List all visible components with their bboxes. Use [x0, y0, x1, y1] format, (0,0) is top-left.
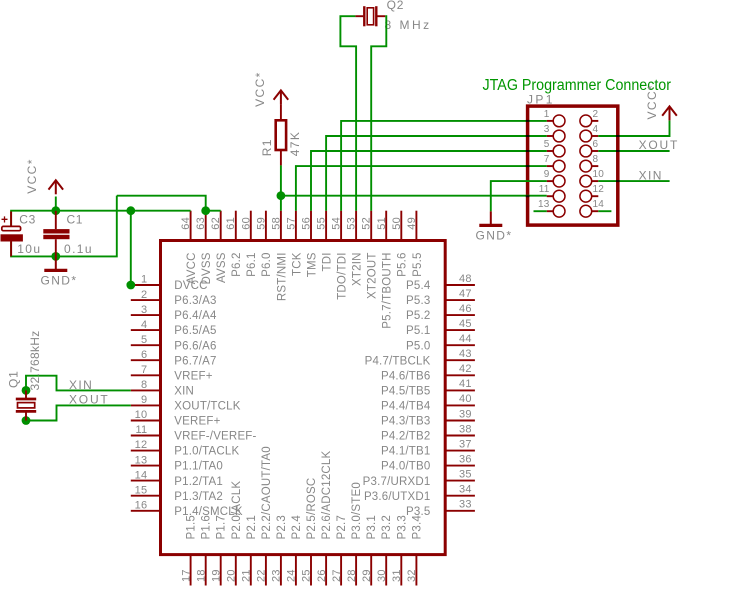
- svg-text:P6.0: P6.0: [261, 252, 273, 276]
- U1 pin 58 (RST/NMI) top: [270, 211, 288, 301]
- svg-text:52: 52: [361, 217, 373, 230]
- svg-text:P4.4/TB4: P4.4/TB4: [381, 401, 431, 413]
- JP1 pin 7: [544, 154, 565, 172]
- svg-text:5: 5: [544, 139, 550, 150]
- U1 pin 53 (XT2IN) top: [346, 211, 364, 286]
- svg-text:XOUT: XOUT: [69, 393, 110, 407]
- svg-text:Q2: Q2: [387, 0, 405, 12]
- svg-text:0.1u: 0.1u: [64, 242, 93, 256]
- svg-text:XT2IN: XT2IN: [352, 252, 364, 286]
- junction C1/GND: [51, 252, 60, 261]
- svg-text:XOUT: XOUT: [639, 138, 680, 152]
- svg-text:XIN: XIN: [174, 386, 194, 398]
- svg-text:TDO/TDI: TDO/TDI: [337, 252, 349, 299]
- svg-text:6: 6: [141, 349, 147, 361]
- junction Q1 top: [22, 386, 31, 395]
- U1 pin 1 (DVCC) left: [131, 274, 208, 292]
- svg-text:TCK: TCK: [291, 252, 303, 276]
- svg-text:4: 4: [141, 319, 147, 331]
- svg-text:RST/NMI: RST/NMI: [276, 252, 288, 301]
- svg-text:14: 14: [593, 199, 605, 210]
- U1 pin 7 (VREF+) left: [131, 364, 213, 382]
- U1 pin 57 (TCK) top: [285, 211, 303, 276]
- wire TDO/TDI/TMS/TCK chain 3: [296, 166, 547, 211]
- svg-text:C3: C3: [19, 213, 36, 227]
- svg-text:44: 44: [459, 333, 472, 345]
- U1 pin 35 (P3.7/URXD1) right: [363, 468, 475, 487]
- svg-text:P3.0/STE0: P3.0/STE0: [351, 482, 363, 539]
- JP1 pin 12: [580, 184, 604, 202]
- svg-text:58: 58: [270, 217, 282, 230]
- U1 pin 6 (P6.7/A7) left: [131, 349, 217, 368]
- wire VCC rail (C3-C1-pin64): [11, 211, 191, 227]
- svg-text:P2.0/ACLK: P2.0/ACLK: [231, 481, 243, 540]
- svg-text:7: 7: [544, 154, 550, 165]
- svg-text:29: 29: [361, 569, 373, 582]
- svg-text:15: 15: [135, 484, 148, 496]
- crystal Q2: [355, 6, 385, 26]
- svg-text:63: 63: [195, 217, 207, 230]
- svg-text:VCC*: VCC*: [253, 71, 267, 107]
- JP1 pin 10: [580, 169, 604, 187]
- svg-text:8 MHz: 8 MHz: [385, 18, 432, 32]
- U1 pin 31 (P3.3) bottom: [391, 515, 408, 585]
- svg-text:P2.3: P2.3: [276, 515, 288, 539]
- svg-text:53: 53: [346, 217, 358, 230]
- svg-text:VREF-/VEREF-: VREF-/VEREF-: [174, 431, 256, 443]
- svg-text:XOUT/TCLK: XOUT/TCLK: [174, 401, 240, 413]
- svg-text:P4.3/TB3: P4.3/TB3: [381, 416, 431, 428]
- U1 pin 59 (P6.0) top: [255, 211, 273, 277]
- U1 pin 41 (P4.5/TB5) right: [381, 378, 475, 397]
- svg-text:16: 16: [135, 499, 148, 511]
- svg-text:P1.6: P1.6: [201, 515, 213, 539]
- JP1 pin 11: [539, 184, 565, 202]
- U1 pin 30 (P3.2) bottom: [376, 515, 393, 585]
- svg-text:P3.4: P3.4: [411, 515, 423, 540]
- svg-text:P2.2/CAOUT/TA0: P2.2/CAOUT/TA0: [261, 446, 273, 539]
- U1 pin 43 (P4.7/TBCLK) right: [365, 348, 475, 367]
- svg-text:40: 40: [459, 393, 472, 405]
- junction C1/C3/VCC: [51, 206, 60, 215]
- svg-text:P6.4/A4: P6.4/A4: [174, 310, 217, 322]
- svg-text:P4.6/TB6: P4.6/TB6: [381, 370, 431, 382]
- svg-text:9: 9: [141, 394, 147, 406]
- svg-text:P6.6/A6: P6.6/A6: [174, 340, 216, 352]
- svg-text:P5.4: P5.4: [406, 280, 431, 292]
- junction pin1 branch: [126, 206, 135, 215]
- svg-text:28: 28: [346, 569, 358, 582]
- IC U1 MSP430 body: [161, 241, 446, 555]
- U1 pin 17 (P1.5) bottom: [180, 515, 197, 585]
- U1 pin 11 (VREF-/VEREF-) left: [131, 424, 257, 442]
- svg-text:P5.3: P5.3: [406, 295, 430, 307]
- svg-text:24: 24: [286, 569, 298, 582]
- U1 pin 25 (P2.5/ROSC) bottom: [301, 478, 318, 586]
- svg-text:55: 55: [316, 217, 328, 230]
- U1 pin 50 (P5.6) top: [391, 211, 409, 277]
- U1 pin 22 (P2.2/CAOUT/TA0) bottom: [256, 446, 273, 585]
- wire XOUT net (JP1 pin 6): [598, 150, 669, 152]
- svg-text:2: 2: [593, 109, 599, 120]
- svg-text:P5.0: P5.0: [406, 340, 430, 352]
- JP1 pin 6: [580, 139, 599, 157]
- svg-text:VCC*: VCC*: [25, 158, 39, 194]
- svg-text:P4.7/TBCLK: P4.7/TBCLK: [365, 355, 431, 367]
- svg-text:P5.7/TBOUTH: P5.7/TBOUTH: [382, 252, 394, 328]
- svg-text:VREF+: VREF+: [174, 370, 212, 382]
- svg-text:P6.3/A3: P6.3/A3: [174, 295, 216, 307]
- U1 pin 2 (P6.3/A3) left: [131, 289, 217, 307]
- svg-text:GND*: GND*: [41, 274, 78, 288]
- svg-text:57: 57: [285, 217, 297, 230]
- svg-text:23: 23: [271, 569, 283, 582]
- svg-text:19: 19: [210, 569, 222, 582]
- U1 pin 16 (P1.4/SMCLK) left: [131, 499, 243, 518]
- svg-text:36: 36: [459, 453, 472, 465]
- power symbol VCC* (JTAG): [662, 106, 677, 120]
- svg-text:2: 2: [141, 289, 147, 301]
- svg-text:P2.7: P2.7: [336, 515, 348, 539]
- U1 pin 26 (P2.6/ADC12CLK) bottom: [316, 450, 333, 585]
- svg-text:21: 21: [241, 569, 253, 582]
- U1 pin 27 (P2.7) bottom: [331, 515, 348, 585]
- JP1 pin 1: [544, 109, 565, 127]
- svg-text:56: 56: [301, 217, 313, 230]
- svg-text:P2.1: P2.1: [246, 515, 258, 539]
- svg-text:P5.2: P5.2: [406, 310, 430, 322]
- U1 pin 29 (P3.1) bottom: [361, 515, 378, 585]
- JP1 pin 2: [580, 109, 599, 127]
- svg-text:GND*: GND*: [476, 229, 513, 243]
- svg-text:17: 17: [180, 569, 192, 582]
- wire DVSS/AVSS (to pins 63,62): [117, 196, 206, 211]
- svg-text:P1.5: P1.5: [186, 515, 198, 539]
- svg-text:13: 13: [135, 454, 148, 466]
- resistor R1: [276, 105, 286, 166]
- junction Q1 bottom: [22, 416, 31, 425]
- svg-text:33: 33: [459, 499, 472, 511]
- svg-text:JTAG Programmer Connector: JTAG Programmer Connector: [483, 77, 672, 94]
- svg-text:27: 27: [331, 569, 343, 582]
- wire TDO/TDI/TMS/TCK chain 0: [341, 121, 547, 211]
- svg-text:P6.7/A7: P6.7/A7: [174, 355, 216, 367]
- svg-text:41: 41: [459, 378, 472, 390]
- svg-text:35: 35: [459, 468, 472, 480]
- svg-text:61: 61: [225, 217, 237, 230]
- svg-text:DVCC: DVCC: [174, 280, 207, 292]
- svg-text:P2.5/ROSC: P2.5/ROSC: [306, 478, 318, 540]
- U1 pin 33 (P3.5) right: [406, 499, 475, 518]
- JP1 pin 3: [544, 124, 565, 142]
- svg-text:47K: 47K: [288, 131, 302, 157]
- wire XOUT (Q1 to pin 9): [26, 405, 131, 420]
- U1 pin 61 (P6.2) top: [225, 211, 243, 277]
- JP1 pin 4: [580, 124, 599, 142]
- svg-text:39: 39: [459, 408, 472, 420]
- svg-text:P4.0/TB0: P4.0/TB0: [381, 461, 431, 473]
- svg-text:46: 46: [459, 303, 472, 315]
- svg-text:59: 59: [255, 217, 267, 230]
- svg-text:48: 48: [459, 273, 472, 285]
- svg-text:25: 25: [301, 569, 313, 582]
- svg-text:P4.2/TB2: P4.2/TB2: [381, 431, 431, 443]
- svg-text:10u: 10u: [17, 242, 41, 256]
- U1 pin 18 (P1.6) bottom: [195, 515, 212, 585]
- svg-text:VCC*: VCC*: [645, 84, 659, 120]
- svg-text:P2.4: P2.4: [291, 515, 303, 540]
- svg-text:P6.1: P6.1: [246, 252, 258, 276]
- svg-text:XIN: XIN: [639, 168, 663, 182]
- junction R1/RST: [277, 191, 286, 200]
- svg-text:20: 20: [225, 569, 237, 582]
- svg-text:VEREF+: VEREF+: [174, 416, 220, 428]
- svg-text:64: 64: [180, 217, 192, 230]
- svg-text:P2.6/ADC12CLK: P2.6/ADC12CLK: [321, 450, 333, 539]
- junction pin63/62: [201, 206, 210, 215]
- svg-text:22: 22: [256, 569, 268, 582]
- svg-text:49: 49: [406, 217, 418, 230]
- U1 pin 20 (P2.0/ACLK) bottom: [225, 481, 242, 586]
- wire Q2 right to XT2OUT (pin 52): [371, 16, 386, 211]
- svg-text:P1.7: P1.7: [216, 515, 228, 539]
- svg-text:P3.3: P3.3: [396, 515, 408, 539]
- svg-text:P1.2/TA1: P1.2/TA1: [174, 476, 223, 488]
- svg-text:3: 3: [141, 304, 147, 316]
- U1 pin 37 (P4.1/TB1) right: [381, 438, 475, 457]
- U1 pin 3 (P6.4/A4) left: [131, 304, 217, 322]
- svg-text:5: 5: [141, 334, 147, 346]
- wire RST to JP1 pin 11: [281, 195, 547, 197]
- svg-text:8: 8: [141, 379, 147, 391]
- wire TDO/TDI/TMS/TCK chain 2: [311, 151, 547, 211]
- svg-text:3: 3: [544, 124, 550, 135]
- junction at pin 1: [126, 281, 135, 290]
- svg-text:1: 1: [141, 274, 147, 286]
- svg-text:32: 32: [406, 569, 418, 582]
- svg-text:8: 8: [593, 154, 599, 165]
- svg-text:10: 10: [135, 409, 148, 421]
- svg-text:11: 11: [539, 184, 550, 195]
- U1 pin 23 (P2.3) bottom: [271, 515, 288, 585]
- U1 pin 15 (P1.3/TA2) left: [131, 484, 223, 502]
- U1 pin 19 (P1.7) bottom: [210, 515, 227, 585]
- U1 pin 51 (P5.7/TBOUTH) top: [376, 211, 394, 329]
- U1 pin 36 (P4.0/TB0) right: [381, 453, 475, 472]
- svg-text:P4.5/TB5: P4.5/TB5: [381, 386, 431, 398]
- svg-text:54: 54: [331, 217, 343, 230]
- wire/box crossing darkening: [526, 120, 530, 122]
- svg-text:XIN: XIN: [69, 378, 93, 392]
- svg-text:50: 50: [391, 217, 403, 230]
- U1 pin 9 (XOUT/TCLK) left: [131, 394, 241, 412]
- svg-text:6: 6: [593, 139, 599, 150]
- capacitor C1: [43, 211, 69, 257]
- svg-text:10: 10: [593, 169, 605, 180]
- connector JP1 body: [528, 106, 618, 225]
- wire VCC stem (C1): [55, 197, 57, 211]
- U1 pin 62 (AVSS) top: [210, 211, 228, 283]
- svg-text:62: 62: [210, 217, 222, 230]
- wire JP1 pin 4 to VCC: [598, 121, 669, 137]
- U1 pin 5 (P6.6/A6) left: [131, 334, 217, 352]
- U1 pin 40 (P4.4/TB4) right: [381, 393, 475, 412]
- U1 pin 12 (P1.0/TACLK) left: [131, 439, 240, 458]
- svg-text:11: 11: [135, 424, 147, 436]
- svg-text:XT2OUT: XT2OUT: [367, 252, 379, 299]
- U1 pin 63 (DVSS) top: [195, 211, 213, 285]
- U1 pin 13 (P1.1/TA0) left: [131, 454, 223, 472]
- svg-text:C1: C1: [67, 213, 84, 227]
- U1 pin 52 (XT2OUT) top: [361, 211, 379, 299]
- svg-text:+: +: [1, 213, 8, 227]
- svg-text:TDI: TDI: [321, 252, 333, 271]
- svg-text:37: 37: [459, 438, 472, 450]
- svg-text:38: 38: [459, 423, 472, 435]
- svg-text:7: 7: [141, 364, 147, 376]
- U1 pin 54 (TDO/TDI) top: [331, 211, 349, 300]
- U1 pin 39 (P4.3/TB3) right: [381, 408, 475, 427]
- crystal Q1: [16, 390, 36, 420]
- wire GND rail (C3-C1-riser): [11, 196, 117, 257]
- svg-text:P3.6/UTXD1: P3.6/UTXD1: [364, 491, 431, 503]
- U1 pin 14 (P1.2/TA1) left: [131, 469, 223, 488]
- wire XIN net (JP1 pin 10): [598, 180, 669, 182]
- svg-text:12: 12: [135, 439, 148, 451]
- U1 pin 24 (P2.4) bottom: [286, 515, 303, 586]
- svg-text:Q1: Q1: [7, 370, 21, 388]
- power symbol VCC* (left): [49, 180, 64, 194]
- wire JP1 pin 13 stub: [534, 210, 547, 212]
- svg-text:P5.5: P5.5: [412, 252, 424, 276]
- svg-text:9: 9: [544, 169, 550, 180]
- ground symbol GND* (left): [55, 256, 57, 269]
- svg-text:4: 4: [593, 124, 599, 135]
- svg-text:P1.3/TA2: P1.3/TA2: [174, 491, 223, 503]
- U1 pin 46 (P5.2) right: [406, 303, 475, 322]
- svg-text:60: 60: [240, 217, 252, 230]
- U1 pin 32 (P3.4) bottom: [406, 515, 423, 586]
- svg-text:P5.1: P5.1: [406, 325, 430, 337]
- svg-text:32.768kHz: 32.768kHz: [28, 330, 42, 390]
- U1 pin 4 (P6.5/A5) left: [131, 319, 217, 337]
- svg-text:12: 12: [593, 184, 605, 195]
- JP1 pin 14: [580, 199, 604, 217]
- U1 pin 42 (P4.6/TB6) right: [381, 363, 475, 382]
- U1 pin 56 (TMS) top: [301, 211, 319, 278]
- U1 pin 55 (TDI) top: [316, 211, 334, 272]
- wire JP1 pin 9 to GND: [491, 181, 547, 211]
- svg-text:51: 51: [376, 217, 388, 230]
- U1 pin 28 (P3.0/STE0) bottom: [346, 482, 363, 585]
- U1 pin 49 (P5.5) top: [406, 211, 424, 277]
- svg-text:1: 1: [544, 109, 550, 120]
- wire XIN (Q1 to pin 8): [26, 376, 131, 391]
- capacitor C3: [1, 212, 23, 257]
- JP1 pin 13: [538, 199, 565, 217]
- svg-text:P6.2: P6.2: [231, 252, 243, 276]
- U1 pin 8 (XIN) left: [131, 379, 194, 397]
- wire DVCC (rail to pin 1): [130, 211, 132, 285]
- svg-text:26: 26: [316, 569, 328, 582]
- JP1 pin 8: [580, 154, 599, 172]
- svg-text:P3.2: P3.2: [381, 515, 393, 539]
- svg-text:P1.1/TA0: P1.1/TA0: [174, 461, 223, 473]
- svg-text:34: 34: [459, 484, 472, 496]
- wire JP1 pin 14 stub: [598, 210, 611, 212]
- svg-text:18: 18: [195, 569, 207, 582]
- power symbol VCC* (R1): [274, 90, 289, 104]
- svg-text:P3.1: P3.1: [366, 515, 378, 539]
- U1 pin 48 (P5.4) right: [406, 273, 475, 292]
- U1 pin 47 (P5.3) right: [406, 288, 475, 307]
- svg-text:45: 45: [459, 318, 472, 330]
- JP1 pin 9: [544, 169, 565, 187]
- U1 pin 38 (P4.2/TB2) right: [381, 423, 475, 442]
- svg-text:TMS: TMS: [306, 252, 318, 277]
- svg-text:47: 47: [459, 288, 472, 300]
- svg-text:30: 30: [376, 569, 388, 582]
- svg-text:42: 42: [459, 363, 472, 375]
- svg-text:31: 31: [391, 569, 403, 582]
- U1 pin 45 (P5.1) right: [406, 318, 475, 337]
- svg-text:14: 14: [135, 469, 148, 481]
- svg-text:P1.0/TACLK: P1.0/TACLK: [174, 446, 239, 458]
- U1 pin 34 (P3.6/UTXD1) right: [364, 484, 475, 503]
- U1 pin 64 (AVCC) top: [180, 211, 198, 285]
- wire R1 to pin 58: [280, 165, 282, 195]
- wire Q2 left to XT2IN (pin 53): [340, 16, 356, 211]
- svg-text:P4.1/TB1: P4.1/TB1: [381, 446, 431, 458]
- svg-text:13: 13: [538, 199, 550, 210]
- U1 pin 44 (P5.0) right: [406, 333, 475, 352]
- JP1 pin 5: [544, 139, 565, 157]
- U1 pin 60 (P6.1) top: [240, 211, 258, 277]
- svg-text:R1: R1: [260, 138, 274, 156]
- svg-text:P6.5/A5: P6.5/A5: [174, 325, 216, 337]
- wire TDO/TDI/TMS/TCK chain 1: [326, 136, 547, 211]
- svg-text:43: 43: [459, 348, 472, 360]
- ground symbol GND* (JTAG): [490, 211, 492, 224]
- U1 pin 21 (P2.1) bottom: [241, 515, 258, 585]
- U1 pin 10 (VEREF+) left: [131, 409, 221, 427]
- svg-text:P5.6: P5.6: [397, 252, 409, 276]
- svg-text:AVSS: AVSS: [216, 252, 228, 283]
- svg-text:P3.7/URXD1: P3.7/URXD1: [363, 476, 431, 488]
